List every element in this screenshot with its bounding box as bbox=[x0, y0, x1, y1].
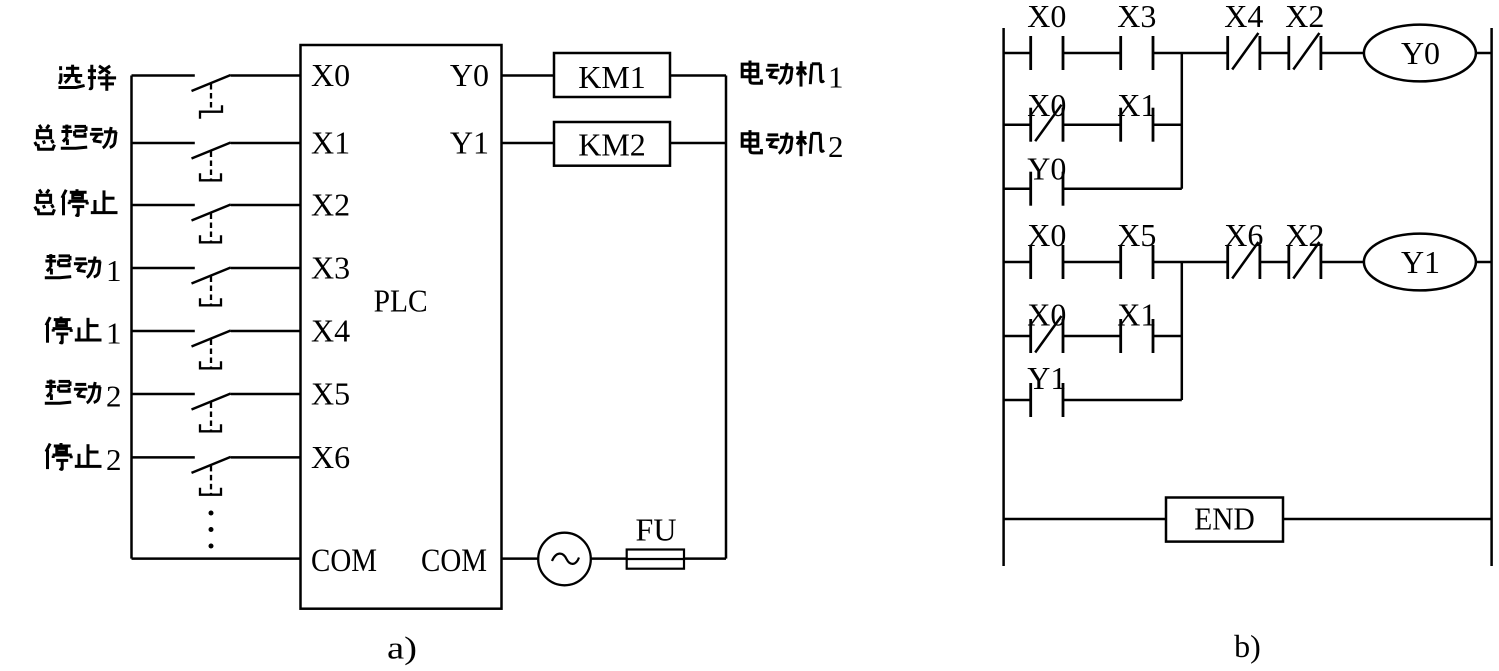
svg-text:X1: X1 bbox=[1117, 87, 1156, 123]
svg-text:X2: X2 bbox=[1285, 217, 1324, 253]
svg-text:COM: COM bbox=[421, 543, 487, 579]
svg-text:END: END bbox=[1194, 500, 1255, 536]
svg-text:X5: X5 bbox=[311, 375, 350, 411]
svg-text:X0: X0 bbox=[1027, 217, 1066, 253]
svg-text:a): a) bbox=[387, 630, 417, 666]
svg-text:X2: X2 bbox=[1285, 0, 1324, 34]
svg-text:KM2: KM2 bbox=[578, 126, 646, 162]
svg-text:Y1: Y1 bbox=[450, 124, 489, 160]
svg-text:X0: X0 bbox=[311, 57, 350, 93]
svg-text:Y0: Y0 bbox=[450, 57, 489, 93]
svg-text:KM1: KM1 bbox=[578, 59, 646, 95]
svg-text:X3: X3 bbox=[1117, 0, 1156, 34]
svg-text:X4: X4 bbox=[1224, 0, 1263, 34]
svg-text:1: 1 bbox=[106, 316, 122, 351]
svg-text:X2: X2 bbox=[311, 186, 350, 222]
svg-text:1: 1 bbox=[106, 253, 122, 288]
svg-text:Y1: Y1 bbox=[1027, 360, 1066, 396]
svg-text:Y0: Y0 bbox=[1401, 35, 1440, 71]
svg-text:X0: X0 bbox=[1027, 0, 1066, 34]
svg-text:X0: X0 bbox=[1027, 87, 1066, 123]
svg-text:X3: X3 bbox=[311, 249, 350, 285]
svg-text:Y0: Y0 bbox=[1027, 151, 1066, 187]
svg-text:2: 2 bbox=[106, 442, 122, 477]
svg-text:X0: X0 bbox=[1027, 297, 1066, 333]
svg-text:b): b) bbox=[1234, 628, 1261, 664]
svg-text:FU: FU bbox=[636, 512, 677, 548]
svg-text:PLC: PLC bbox=[374, 283, 428, 319]
svg-text:COM: COM bbox=[311, 543, 377, 579]
svg-text:X1: X1 bbox=[311, 124, 350, 160]
svg-text:X4: X4 bbox=[311, 312, 350, 348]
svg-text:2: 2 bbox=[106, 379, 122, 414]
svg-text:1: 1 bbox=[828, 59, 844, 94]
svg-text:2: 2 bbox=[828, 129, 844, 164]
svg-text:X6: X6 bbox=[1224, 217, 1263, 253]
svg-text:Y1: Y1 bbox=[1401, 244, 1440, 280]
svg-text:X6: X6 bbox=[311, 439, 350, 475]
svg-text:X5: X5 bbox=[1117, 217, 1156, 253]
svg-text:X1: X1 bbox=[1117, 297, 1156, 333]
